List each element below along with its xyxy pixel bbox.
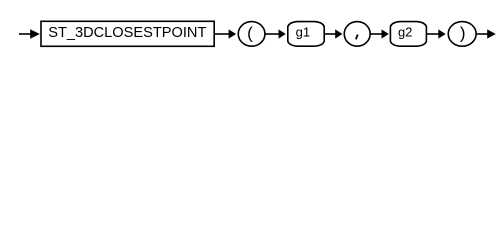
arrowhead 4	[335, 29, 342, 38]
wire 5	[370, 33, 382, 35]
wire end	[476, 33, 488, 35]
svg-text:g1: g1	[296, 24, 310, 39]
wire 2	[215, 33, 229, 35]
wire 4	[324, 33, 336, 35]
arrowhead 7	[487, 29, 496, 38]
background	[0, 0, 496, 58]
box ST_3DCLOSESTPOINT	[41, 21, 214, 46]
terminal ,	[344, 22, 370, 47]
svg-text:(: (	[247, 24, 253, 43]
arrowhead 2	[229, 29, 237, 38]
svg-text:g2: g2	[398, 24, 412, 39]
terminal )	[448, 22, 476, 47]
terminal g2	[390, 22, 426, 47]
wire 3	[265, 33, 279, 35]
wire start	[19, 33, 32, 35]
arrowhead 6	[438, 29, 445, 38]
svg-text:): )	[460, 24, 466, 43]
svg-text:ST_3DCLOSESTPOINT: ST_3DCLOSESTPOINT	[48, 25, 206, 41]
terminal (	[238, 22, 265, 47]
arrowhead 5	[382, 29, 389, 38]
terminal g1	[288, 22, 324, 47]
arrowhead 3	[279, 29, 286, 38]
arrowhead 1	[30, 29, 40, 39]
wire 6	[426, 33, 439, 35]
